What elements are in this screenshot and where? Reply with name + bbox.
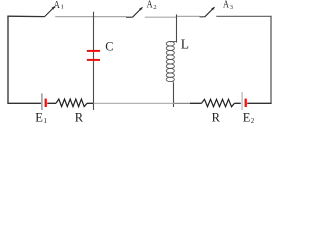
- node top junction inductor branch: [176, 14, 178, 42]
- label R right: [212, 110, 221, 124]
- label E1: [35, 110, 47, 125]
- svg-text:E: E: [35, 110, 43, 124]
- battery E2 short red plate: [245, 99, 247, 107]
- wire bottom junction to inductor branch: [94, 102, 174, 104]
- wire dark tick before A3 hinge: [200, 16, 205, 18]
- wire left vertical: [7, 16, 9, 104]
- capacitor C plates: [87, 51, 100, 60]
- resistor R left zigzag: [56, 99, 87, 107]
- svg-text:A: A: [223, 0, 230, 11]
- wire inductor branch to resistor R right: [174, 102, 202, 104]
- wire top A2 to junction: [145, 16, 177, 18]
- label R left: [75, 110, 84, 124]
- switch A2 blade: [133, 7, 144, 17]
- battery E1 long plate: [41, 93, 43, 110]
- svg-text:L: L: [181, 36, 189, 51]
- switch A1 blade: [45, 6, 56, 17]
- label C: [105, 40, 113, 54]
- label A2: [147, 0, 157, 11]
- inductor L coil: [166, 41, 176, 84]
- battery E2 long plate: [241, 92, 243, 110]
- svg-text:R: R: [75, 110, 84, 124]
- wire E2 to right corner: [247, 102, 271, 104]
- wire top A1 to junction: [55, 16, 93, 18]
- battery E1 short red plate: [45, 99, 47, 107]
- resistor R right zigzag: [202, 99, 235, 106]
- svg-text:1: 1: [44, 117, 48, 125]
- label E2: [243, 110, 255, 125]
- svg-text:A: A: [54, 0, 61, 11]
- wire top-left to switch A1: [7, 15, 44, 17]
- svg-text:A: A: [147, 0, 154, 11]
- svg-text:2: 2: [153, 4, 156, 11]
- svg-text:E: E: [243, 110, 251, 124]
- label L: [181, 36, 189, 51]
- wire R to junction: [87, 102, 94, 104]
- svg-text:3: 3: [230, 4, 233, 11]
- wire top junction to A3: [177, 15, 200, 17]
- wire top A3 to right corner: [216, 15, 271, 17]
- svg-text:2: 2: [251, 117, 255, 125]
- label A1: [54, 0, 64, 11]
- svg-text:C: C: [105, 40, 113, 54]
- wire inductor lower lead: [173, 83, 175, 107]
- svg-text:R: R: [212, 110, 221, 124]
- wire bottom-left to battery E1: [7, 102, 41, 104]
- wire right vertical: [270, 16, 272, 104]
- wire R to battery E2: [235, 102, 241, 104]
- switch A3 blade: [205, 7, 215, 17]
- wire dark tick before A2 hinge: [126, 16, 133, 18]
- wire E1 to resistor R: [47, 102, 56, 104]
- node top junction capacitor branch: [93, 12, 95, 110]
- label A3: [223, 0, 233, 11]
- svg-text:1: 1: [61, 3, 64, 10]
- wire top junction to A2: [94, 16, 127, 18]
